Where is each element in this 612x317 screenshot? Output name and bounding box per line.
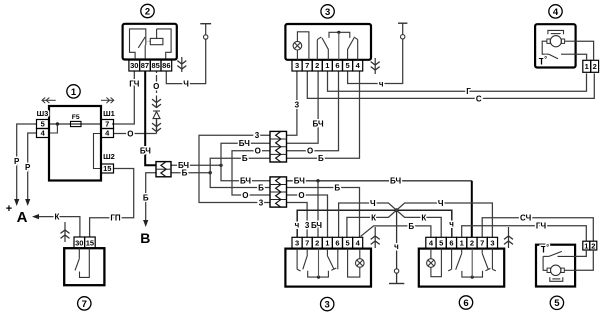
svg-text:6: 6 (463, 298, 468, 309)
svg-text:БЧ: БЧ (311, 221, 322, 230)
svg-text:30: 30 (75, 238, 83, 247)
svg-text:Б: Б (258, 183, 264, 192)
svg-text:БЧ: БЧ (294, 177, 305, 186)
svg-text:Ш2: Ш2 (103, 152, 115, 161)
svg-text:3: 3 (255, 131, 260, 140)
svg-text:Ш3: Ш3 (37, 109, 49, 118)
svg-text:Ч: Ч (370, 199, 376, 208)
svg-text:Б: Б (182, 169, 188, 178)
svg-text:86: 86 (162, 61, 170, 70)
svg-text:ч: ч (394, 242, 399, 251)
svg-text:А: А (17, 209, 28, 226)
svg-text:3: 3 (259, 198, 264, 207)
svg-text:3: 3 (295, 239, 299, 248)
svg-text:3: 3 (325, 7, 330, 18)
svg-text:1: 1 (584, 241, 588, 250)
svg-text:2: 2 (470, 239, 474, 248)
svg-text:К: К (55, 212, 60, 221)
svg-text:ГЧ: ГЧ (129, 79, 140, 88)
svg-text:87: 87 (141, 61, 149, 70)
svg-text:Р: Р (14, 157, 20, 166)
svg-text:ч: ч (379, 79, 384, 88)
svg-text:3: 3 (490, 239, 494, 248)
svg-text:Б: Б (143, 193, 149, 202)
svg-text:5: 5 (345, 61, 349, 70)
svg-text:6: 6 (449, 239, 453, 248)
svg-text:1: 1 (585, 62, 589, 71)
svg-text:7: 7 (305, 239, 309, 248)
svg-text:2: 2 (591, 241, 595, 250)
svg-text:Ч: Ч (438, 199, 444, 208)
svg-text:1: 1 (71, 87, 77, 98)
svg-text:F5: F5 (72, 114, 80, 121)
svg-text:Б: Б (242, 154, 248, 163)
svg-text:5: 5 (41, 120, 45, 129)
svg-text:О: О (298, 191, 304, 200)
svg-text:О: О (255, 147, 261, 156)
svg-text:Ш1: Ш1 (103, 109, 115, 118)
svg-text:15: 15 (103, 164, 111, 173)
svg-text:Б: Б (318, 154, 324, 163)
svg-text:О: О (127, 129, 133, 138)
svg-text:Б: Б (408, 222, 414, 231)
svg-text:6: 6 (335, 239, 339, 248)
svg-text:7: 7 (82, 299, 87, 310)
svg-text:БЧ: БЧ (140, 146, 151, 155)
svg-text:Б: Б (334, 183, 340, 192)
svg-text:БЧ: БЧ (390, 177, 401, 186)
svg-text:В: В (140, 230, 150, 246)
svg-text:85: 85 (151, 61, 159, 70)
svg-text:6: 6 (335, 61, 339, 70)
svg-text:7: 7 (480, 239, 484, 248)
svg-text:5: 5 (554, 298, 560, 309)
svg-text:О: О (242, 191, 248, 200)
svg-text:2: 2 (593, 62, 597, 71)
svg-text:С: С (476, 94, 482, 103)
svg-text:3: 3 (325, 300, 330, 311)
svg-text:СЧ: СЧ (520, 214, 532, 223)
svg-text:ч: ч (449, 220, 454, 229)
svg-text:15: 15 (86, 238, 94, 247)
svg-text:ч: ч (295, 220, 300, 229)
svg-text:5: 5 (345, 239, 349, 248)
svg-text:БЧ: БЧ (239, 139, 250, 148)
svg-text:2: 2 (315, 61, 319, 70)
svg-text:2: 2 (145, 6, 150, 17)
svg-text:БЧ: БЧ (240, 177, 251, 186)
svg-text:1: 1 (325, 61, 329, 70)
svg-text:3: 3 (305, 221, 310, 230)
svg-text:Ч: Ч (183, 79, 189, 88)
svg-text:БЧ: БЧ (313, 119, 324, 128)
svg-text:1: 1 (460, 239, 464, 248)
svg-text:4: 4 (553, 7, 559, 18)
svg-text:7: 7 (305, 61, 309, 70)
svg-text:+: + (6, 203, 12, 215)
svg-text:3: 3 (295, 61, 299, 70)
svg-text:7: 7 (105, 120, 109, 129)
svg-text:О: О (307, 147, 313, 156)
svg-text:Г: Г (466, 87, 471, 96)
svg-text:ГЧ: ГЧ (536, 222, 547, 231)
svg-text:ГП: ГП (110, 214, 121, 223)
svg-text:5: 5 (439, 239, 443, 248)
svg-text:3: 3 (295, 100, 300, 109)
svg-text:1: 1 (325, 239, 329, 248)
svg-text:°: ° (546, 243, 549, 251)
svg-text:К: К (421, 213, 426, 222)
svg-text:К: К (371, 213, 376, 222)
svg-text:2: 2 (315, 239, 319, 248)
svg-text:О: О (153, 82, 159, 91)
svg-text:Р: Р (25, 163, 31, 172)
svg-text:°: ° (544, 56, 547, 64)
svg-text:30: 30 (130, 61, 138, 70)
